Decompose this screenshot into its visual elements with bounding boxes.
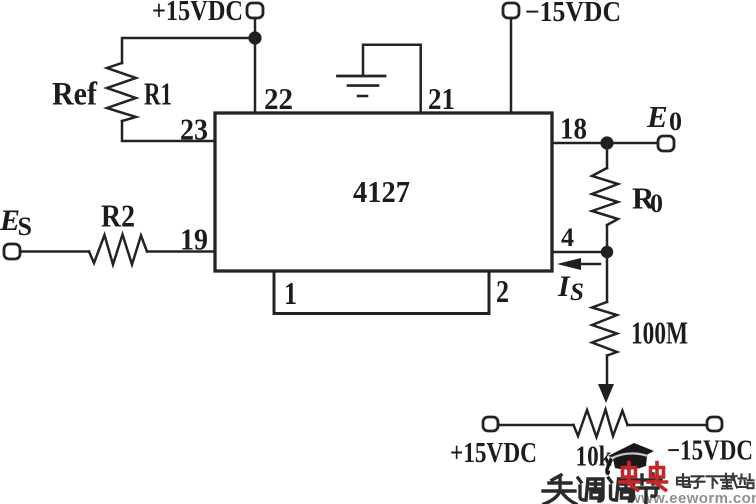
resistor R2	[89, 235, 147, 265]
svg-text:4127: 4127	[353, 174, 410, 209]
node B junction dot at pin18/R0	[600, 136, 613, 149]
op-amp U1 4127 body	[215, 113, 552, 271]
wire node A to R1 top	[122, 38, 255, 63]
svg-text:R2: R2	[101, 198, 135, 234]
node A junction dot	[248, 31, 261, 44]
wire R1 bottom to pin 23	[122, 121, 215, 141]
svg-text:S: S	[18, 212, 32, 241]
caption text 失调调节	[543, 474, 661, 504]
svg-text:4: 4	[561, 223, 574, 252]
svg-text:Ref: Ref	[52, 77, 98, 113]
svg-text:18: 18	[560, 111, 587, 146]
svg-text:S: S	[570, 279, 584, 306]
potentiometer 10k	[574, 410, 628, 438]
svg-text:0: 0	[650, 189, 663, 218]
ground symbol	[338, 75, 386, 78]
svg-text:1: 1	[284, 275, 297, 311]
pin 18 wire to output	[552, 142, 658, 145]
power terminal +15VDC top	[247, 3, 263, 18]
input terminal ES	[4, 244, 20, 259]
svg-text:+15VDC: +15VDC	[152, 0, 243, 27]
resistor R0	[592, 168, 618, 225]
power terminal -15VDC bottom	[707, 417, 722, 431]
wire node C to 100M	[606, 252, 609, 302]
resistor R1	[107, 63, 136, 121]
watermark text dianzi xiazaizhan	[677, 474, 754, 489]
svg-text:100M: 100M	[631, 316, 688, 351]
resistor 100M	[592, 302, 617, 356]
svg-text:22: 22	[264, 81, 293, 116]
svg-text:I: I	[557, 270, 571, 303]
output terminal E0	[658, 136, 674, 151]
wire -15VDC to IC top	[510, 18, 513, 113]
wire node B to R0	[606, 143, 609, 168]
svg-text:+15VDC: +15VDC	[450, 437, 537, 469]
wire pot left to +15VDC terminal	[498, 424, 574, 427]
svg-text:−15VDC: −15VDC	[525, 0, 621, 28]
wire R2 to pin 19	[147, 250, 215, 253]
watermark graduation cap logo	[605, 443, 654, 475]
wire 100M to wiper arrow	[606, 356, 609, 387]
svg-text:−15VDC: −15VDC	[667, 436, 753, 467]
svg-text:0: 0	[669, 107, 682, 136]
power terminal -15VDC top	[503, 3, 519, 18]
wire R0 bottom to node C	[606, 225, 609, 252]
watermark red characters chong chong	[620, 463, 667, 491]
svg-text:21: 21	[428, 81, 455, 116]
wire pot right to -15VDC terminal	[628, 424, 708, 427]
svg-text:23: 23	[180, 112, 208, 147]
power terminal +15VDC bottom	[483, 417, 498, 431]
wire node A to pin 22	[254, 38, 257, 113]
wire ES to R2	[20, 250, 89, 253]
ground bracket from pin 21	[363, 45, 421, 113]
current arrow IS	[568, 263, 600, 266]
pin 4 wire	[552, 251, 607, 254]
wire +15VDC terminal to node A	[254, 18, 257, 38]
svg-text:19: 19	[180, 222, 208, 257]
svg-text:2: 2	[496, 273, 509, 309]
svg-text:R1: R1	[144, 76, 172, 112]
svg-text:E: E	[646, 99, 668, 134]
offset pins 1 and 2 bracket	[274, 271, 489, 314]
node C junction dot	[601, 246, 613, 258]
wiper arrow of potentiometer	[598, 384, 614, 403]
